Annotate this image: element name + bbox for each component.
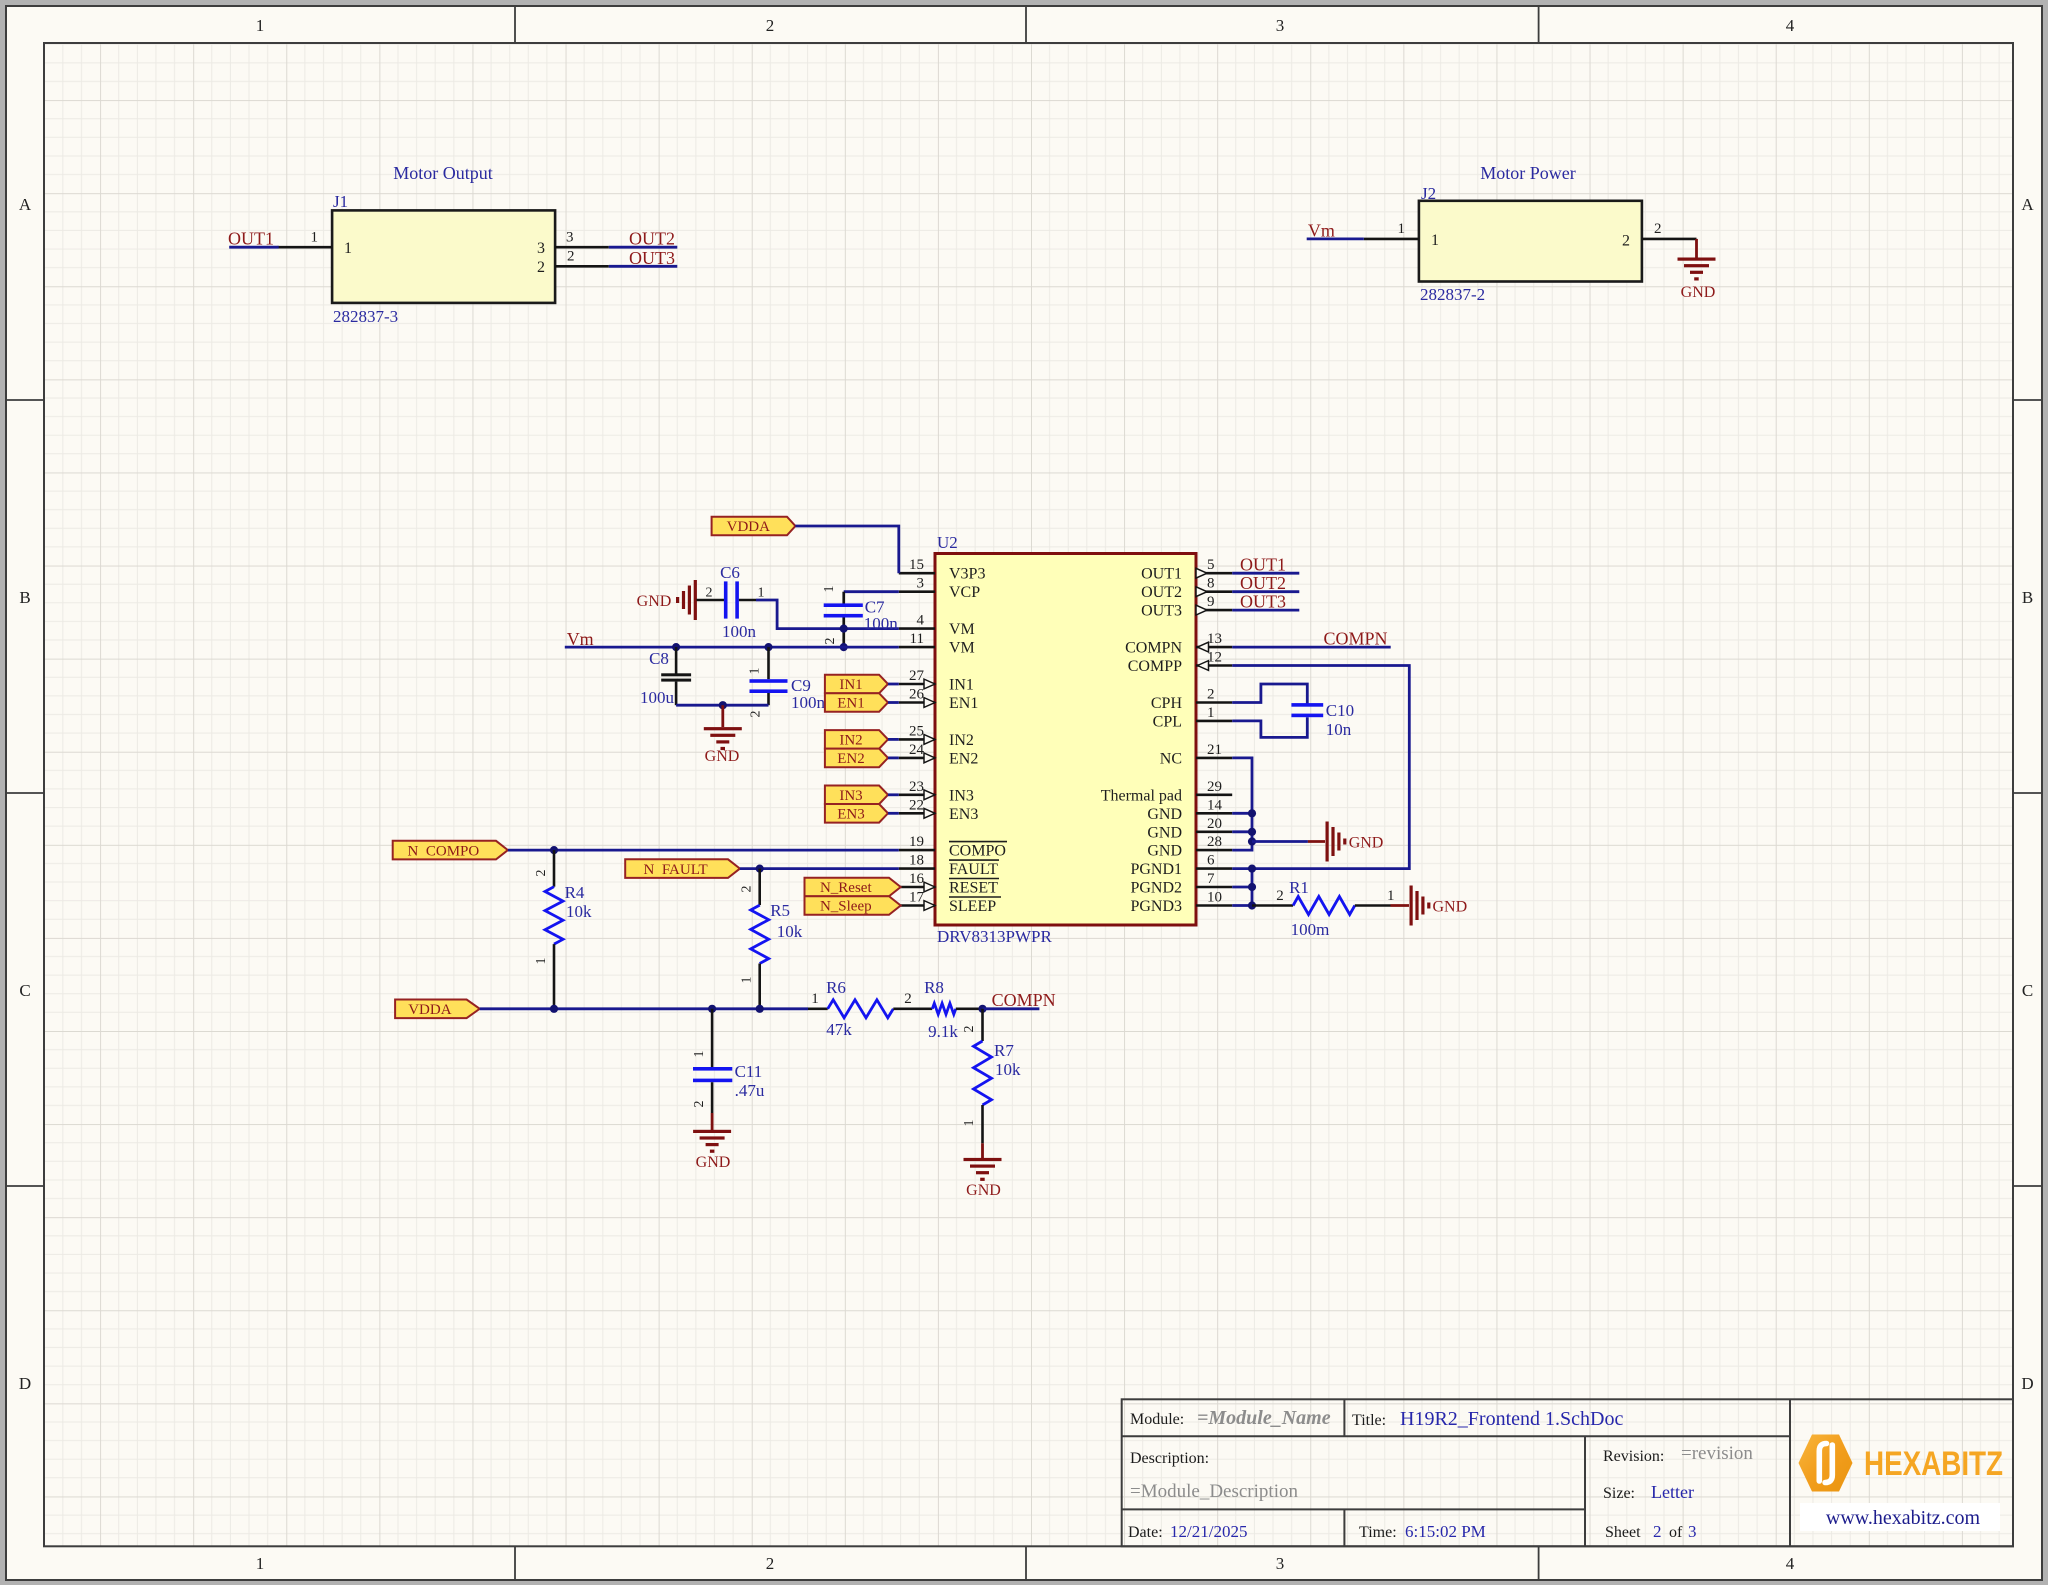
U2 pin 5 (OUT1) — [1141, 557, 1232, 583]
svg-text:GND: GND — [696, 1154, 731, 1171]
svg-text:18: 18 — [909, 853, 924, 869]
svg-text:D: D — [2021, 1374, 2033, 1393]
svg-text:VCP: VCP — [949, 584, 980, 601]
svg-text:6:15:02 PM: 6:15:02 PM — [1405, 1522, 1486, 1541]
svg-text:=Module_Description: =Module_Description — [1130, 1481, 1298, 1502]
U2 pin 27 (IN1) — [899, 668, 974, 694]
resistor R5 10k — [740, 869, 803, 1009]
svg-text:GND: GND — [1147, 824, 1182, 841]
svg-text:GND: GND — [1147, 806, 1182, 823]
junction PGND3 — [1248, 901, 1256, 909]
wire OUT3 (J1) — [609, 265, 678, 268]
wire pin7 to bus — [1232, 886, 1252, 889]
svg-text:2: 2 — [1276, 888, 1284, 904]
svg-text:10k: 10k — [995, 1060, 1021, 1079]
U2 pin 17 (SLEEP) — [899, 890, 1001, 916]
wire EN2 to pin — [888, 757, 899, 760]
junction gnd bus — [719, 701, 727, 709]
svg-text:8: 8 — [1207, 576, 1215, 592]
svg-text:29: 29 — [1207, 779, 1222, 795]
svg-text:2: 2 — [706, 586, 713, 601]
J1 pin 1 — [278, 230, 353, 258]
svg-text:16: 16 — [909, 871, 925, 887]
svg-text:C: C — [19, 981, 30, 1000]
svg-text:24: 24 — [909, 742, 925, 758]
svg-text:C8: C8 — [649, 649, 669, 668]
svg-text:R4: R4 — [565, 883, 585, 902]
U2 pin 18 (FAULT) — [899, 853, 999, 879]
IC U2 DRV8313PWPR — [935, 533, 1196, 946]
U2 pin 24 (EN2) — [899, 742, 979, 768]
junction Vm/C9 — [764, 643, 772, 651]
svg-text:FAULT: FAULT — [949, 861, 998, 878]
junction PGND1 — [1248, 865, 1256, 873]
svg-text:2: 2 — [567, 249, 575, 265]
svg-text:B: B — [2022, 588, 2033, 607]
svg-text:3: 3 — [537, 240, 545, 257]
svg-text:282837-3: 282837-3 — [333, 307, 398, 326]
svg-text:GND: GND — [1433, 899, 1468, 916]
net label flag EN1 — [825, 693, 888, 712]
svg-text:EN1: EN1 — [837, 696, 865, 712]
capacitor C8 100u — [640, 647, 691, 707]
U2 pin 12 (COMPP) — [1128, 650, 1232, 676]
svg-text:A: A — [19, 195, 32, 214]
svg-text:IN1: IN1 — [839, 677, 862, 693]
ground GND at C6 — [637, 580, 697, 620]
svg-text:IN3: IN3 — [839, 788, 862, 804]
svg-text:EN3: EN3 — [837, 807, 865, 823]
svg-text:1: 1 — [1387, 888, 1395, 904]
svg-text:4: 4 — [917, 613, 925, 629]
svg-text:OUT2: OUT2 — [1141, 584, 1182, 601]
wire EN1 to pin — [888, 701, 899, 704]
junction N_FAULT/R5 — [756, 865, 764, 873]
svg-text:4: 4 — [1786, 16, 1795, 35]
svg-text:3: 3 — [917, 576, 925, 592]
svg-text:N_Sleep: N_Sleep — [820, 899, 872, 915]
J2 pin 2 — [1622, 221, 1697, 250]
svg-text:C11: C11 — [735, 1062, 763, 1081]
svg-text:C6: C6 — [720, 563, 740, 582]
wire VDDA rail — [480, 1007, 808, 1010]
svg-text:COMPN: COMPN — [992, 990, 1056, 1010]
U2 pin 20 (GND) — [1147, 816, 1232, 842]
svg-text:A: A — [2021, 195, 2034, 214]
svg-text:V3P3: V3P3 — [949, 566, 985, 583]
J2 pin 1 — [1364, 221, 1439, 249]
svg-text:9: 9 — [1207, 594, 1215, 610]
wire CPL to C10 — [1232, 717, 1307, 737]
svg-text:1: 1 — [1398, 221, 1406, 237]
net label flag N_FAULT — [625, 859, 740, 878]
net label Vm (J2) — [1308, 221, 1335, 241]
svg-text:Motor Output: Motor Output — [393, 163, 493, 183]
ground GND right of U2 — [1308, 822, 1383, 862]
svg-text:1: 1 — [311, 230, 319, 246]
svg-text:1: 1 — [748, 668, 763, 675]
svg-text:6: 6 — [1207, 853, 1215, 869]
wire NC/GND bus — [1232, 758, 1252, 850]
capacitor C9 100n — [748, 647, 826, 717]
svg-text:1: 1 — [962, 1120, 977, 1127]
svg-text:100n: 100n — [864, 614, 899, 633]
J1 pin 3 — [537, 230, 609, 258]
U2 pin 13 (COMPN) — [1125, 631, 1232, 657]
svg-text:J1: J1 — [333, 192, 348, 211]
svg-text:22: 22 — [909, 797, 924, 813]
svg-text:=revision: =revision — [1681, 1443, 1753, 1464]
svg-text:EN2: EN2 — [837, 751, 865, 767]
resistor R7 10k — [962, 1009, 1021, 1144]
ground GND below R7 — [964, 1143, 1002, 1199]
svg-text:IN1: IN1 — [949, 677, 974, 694]
svg-text:2: 2 — [766, 16, 775, 35]
wire OUT3 (U2 right) — [1232, 609, 1299, 612]
svg-text:10n: 10n — [1326, 720, 1352, 739]
svg-text:Letter: Letter — [1651, 1482, 1694, 1502]
svg-text:VDDA: VDDA — [408, 1002, 451, 1018]
wire N_FAULT to U2 pin 18 — [740, 867, 899, 870]
svg-text:2: 2 — [534, 870, 549, 877]
svg-text:RESET: RESET — [949, 880, 998, 897]
svg-text:2: 2 — [749, 711, 764, 718]
wire C6 to U2 pin 4 (VM) — [756, 600, 899, 629]
svg-text:20: 20 — [1207, 816, 1222, 832]
svg-text:VDDA: VDDA — [727, 519, 770, 535]
wire pin20 to bus — [1232, 830, 1252, 833]
resistor R6 47k — [808, 978, 932, 1039]
net label flag N_Reset — [805, 878, 901, 897]
net label OUT2 (J1) — [629, 229, 675, 249]
svg-text:2: 2 — [1653, 1522, 1662, 1541]
wire CPH to C10 — [1232, 684, 1307, 705]
net label flag IN3 — [825, 786, 888, 805]
junction VDDA/R5 — [756, 1005, 764, 1013]
svg-text:1: 1 — [256, 16, 265, 35]
svg-text:OUT1: OUT1 — [228, 229, 274, 249]
resistor R4 10k — [534, 850, 592, 1009]
svg-text:C: C — [2022, 981, 2033, 1000]
wire pin14 to bus — [1232, 812, 1252, 815]
svg-text:7: 7 — [1207, 871, 1215, 887]
net label OUT1 (U2 right) — [1240, 555, 1286, 575]
svg-text:R6: R6 — [826, 978, 846, 997]
svg-text:N COMPO: N COMPO — [408, 843, 480, 859]
U2 pin 26 (EN1) — [899, 687, 979, 713]
svg-text:R5: R5 — [770, 901, 790, 920]
junction GND bus 14 — [1248, 809, 1256, 817]
svg-text:1: 1 — [534, 958, 549, 965]
svg-text:R7: R7 — [994, 1041, 1014, 1060]
wire VDDA to U2 pin 15 — [795, 526, 898, 573]
svg-text:100n: 100n — [791, 693, 826, 712]
ground GND below C8/C9 — [704, 705, 742, 765]
capacitor C6 100n — [697, 563, 765, 641]
wire OUT2 (U2 right) — [1232, 590, 1299, 593]
svg-text:1: 1 — [256, 1554, 265, 1573]
svg-text:=Module_Name: =Module_Name — [1197, 1407, 1331, 1429]
svg-text:OUT3: OUT3 — [1240, 591, 1286, 611]
connector J1 282837-3 (Motor Output) — [332, 163, 555, 326]
resistor R1 100m — [1252, 878, 1394, 939]
svg-text:10: 10 — [1207, 890, 1222, 906]
junction VDDA/C11 — [708, 1005, 716, 1013]
svg-text:28: 28 — [1207, 834, 1222, 850]
U2 pin 10 (PGND3) — [1130, 890, 1232, 916]
svg-text:1: 1 — [758, 586, 765, 601]
svg-text:CPL: CPL — [1153, 713, 1182, 730]
svg-text:47k: 47k — [826, 1020, 852, 1039]
wire COMPP loop — [1232, 666, 1409, 869]
svg-text:B: B — [19, 588, 30, 607]
svg-text:C10: C10 — [1326, 701, 1354, 720]
U2 pin 1 (CPL) — [1153, 705, 1233, 731]
U2 pin 29 (Thermal pad) — [1101, 779, 1232, 805]
svg-text:COMPO: COMPO — [949, 843, 1006, 860]
svg-text:15: 15 — [909, 557, 924, 573]
svg-text:OUT2: OUT2 — [1240, 573, 1286, 593]
net label OUT2 (U2 right) — [1240, 573, 1286, 593]
svg-text:COMPN: COMPN — [1323, 628, 1387, 648]
U2 pin 15 (V3P3) — [899, 557, 986, 583]
svg-text:IN3: IN3 — [949, 787, 974, 804]
wire Vm bus to U2 pin 11 — [565, 646, 899, 649]
U2 pin 8 (OUT2) — [1141, 576, 1232, 602]
svg-text:100u: 100u — [640, 688, 675, 707]
svg-text:GND: GND — [637, 593, 672, 610]
svg-text:100n: 100n — [722, 622, 757, 641]
U2 pin 28 (GND) — [1147, 834, 1232, 860]
svg-text:2: 2 — [1207, 687, 1215, 703]
svg-text:3: 3 — [1276, 1554, 1285, 1573]
svg-text:2: 2 — [1622, 233, 1630, 250]
wire COMPN (right) — [1232, 646, 1391, 649]
svg-text:VM: VM — [949, 621, 975, 638]
svg-text:4: 4 — [1786, 1554, 1795, 1573]
wire N_COMPO to U2 pin 19 — [508, 849, 899, 852]
U2 pin 9 (OUT3) — [1141, 594, 1232, 620]
title block — [1122, 1399, 2013, 1546]
svg-text:3: 3 — [1276, 16, 1285, 35]
wire IN2 to pin — [888, 738, 899, 741]
U2 pin 11 (VM) — [899, 631, 975, 657]
junction PGND2 — [1248, 883, 1256, 891]
svg-text:2: 2 — [740, 886, 755, 893]
wire PGND bus — [1232, 869, 1252, 906]
wire Vm to J2 — [1307, 237, 1364, 240]
svg-text:GND: GND — [705, 748, 740, 765]
svg-text:COMPN: COMPN — [1125, 640, 1182, 657]
junction GND bus tap — [1248, 837, 1256, 845]
svg-text:2: 2 — [904, 991, 912, 1007]
svg-text:SLEEP: SLEEP — [949, 898, 996, 915]
svg-text:PGND2: PGND2 — [1130, 880, 1182, 897]
svg-text:VM: VM — [949, 640, 975, 657]
svg-text:R8: R8 — [924, 978, 944, 997]
ground GND at J2 — [1678, 239, 1716, 301]
svg-text:27: 27 — [909, 668, 925, 684]
net label flag IN1 — [825, 675, 888, 694]
svg-text:Module:: Module: — [1130, 1411, 1184, 1428]
svg-text:2: 2 — [823, 638, 838, 645]
capacitor C10 10n — [1291, 701, 1354, 739]
svg-text:N FAULT: N FAULT — [644, 862, 708, 878]
wire U2 pin 3 (VCP) to C7 — [844, 590, 899, 593]
svg-text:IN2: IN2 — [949, 732, 974, 749]
junction COMPN/R7 — [978, 1005, 986, 1013]
svg-text:Date:: Date: — [1128, 1524, 1163, 1541]
svg-text:23: 23 — [909, 779, 924, 795]
svg-text:1: 1 — [1431, 232, 1439, 249]
svg-text:Size:: Size: — [1603, 1485, 1635, 1502]
net label flag EN2 — [825, 749, 888, 768]
svg-text:Revision:: Revision: — [1603, 1448, 1664, 1465]
HEXABITZ logo — [1799, 1435, 2004, 1532]
net label COMPN (left) — [992, 990, 1056, 1010]
svg-text:OUT3: OUT3 — [1141, 603, 1182, 620]
svg-text:GND: GND — [966, 1182, 1001, 1199]
svg-text:5: 5 — [1207, 557, 1215, 573]
svg-text:Thermal pad: Thermal pad — [1101, 787, 1182, 804]
svg-text:PGND1: PGND1 — [1130, 861, 1182, 878]
U2 pin 2 (CPH) — [1151, 687, 1232, 713]
svg-text:1: 1 — [740, 977, 755, 984]
wire IN3 to pin — [888, 793, 899, 796]
wire OUT2 (J1) — [609, 246, 678, 249]
svg-text:EN3: EN3 — [949, 806, 978, 823]
wire to GND symbol — [1252, 840, 1308, 843]
U2 pin 21 (NC) — [1160, 742, 1232, 768]
ground GND below C11 — [693, 1113, 731, 1171]
J1 pin 2 — [537, 249, 609, 277]
capacitor C7 100n — [822, 586, 898, 648]
U2 pin 4 (VM) — [899, 613, 975, 639]
wire IN1 to pin — [888, 683, 899, 686]
svg-text:2: 2 — [692, 1101, 707, 1108]
power port VDDA (top) — [712, 517, 796, 536]
svg-text:Motor Power: Motor Power — [1480, 163, 1576, 183]
connector J2 282837-2 (Motor Power) — [1419, 163, 1642, 304]
svg-text:H19R2_Frontend 1.SchDoc: H19R2_Frontend 1.SchDoc — [1400, 1408, 1623, 1430]
svg-text:12/21/2025: 12/21/2025 — [1170, 1522, 1247, 1541]
svg-text:3: 3 — [566, 230, 574, 246]
junction GND bus 20 — [1248, 828, 1256, 836]
svg-text:EN2: EN2 — [949, 750, 978, 767]
svg-text:OUT1: OUT1 — [1141, 566, 1182, 583]
svg-text:IN2: IN2 — [839, 733, 862, 749]
svg-text:OUT1: OUT1 — [1240, 555, 1286, 575]
svg-text:Title:: Title: — [1352, 1412, 1386, 1429]
svg-text:1: 1 — [811, 991, 819, 1007]
svg-text:2: 2 — [766, 1554, 775, 1573]
net label flag EN3 — [825, 804, 888, 823]
svg-text:17: 17 — [909, 890, 925, 906]
svg-text:21: 21 — [1207, 742, 1222, 758]
svg-text:26: 26 — [909, 687, 925, 703]
svg-text:GND: GND — [1349, 835, 1384, 852]
svg-text:EN1: EN1 — [949, 695, 978, 712]
junction C7/VM — [840, 625, 848, 652]
resistor R8 9.1k — [924, 978, 982, 1041]
net label flag N_COMPO — [393, 841, 508, 860]
svg-text:10k: 10k — [777, 922, 803, 941]
svg-text:14: 14 — [1207, 797, 1223, 813]
svg-text:25: 25 — [909, 723, 924, 739]
net label OUT3 (J1) — [629, 248, 675, 268]
svg-text:1: 1 — [344, 240, 352, 257]
svg-text:GND: GND — [1681, 284, 1716, 301]
power port VDDA (bottom) — [395, 1000, 480, 1019]
svg-text:2: 2 — [1654, 221, 1662, 237]
svg-text:PGND3: PGND3 — [1130, 898, 1182, 915]
svg-text:Description:: Description: — [1130, 1450, 1209, 1467]
svg-text:.47u: .47u — [735, 1081, 765, 1100]
junction Vm/C8 — [672, 643, 680, 651]
svg-text:2: 2 — [537, 259, 545, 276]
net label flag IN2 — [825, 730, 888, 749]
svg-text:19: 19 — [909, 834, 924, 850]
svg-text:9.1k: 9.1k — [928, 1022, 958, 1041]
svg-text:2: 2 — [962, 1026, 977, 1033]
U2 pin 3 (VCP) — [899, 576, 980, 602]
net label OUT3 (U2 right) — [1240, 591, 1286, 611]
svg-text:D: D — [19, 1374, 31, 1393]
U2 pin 25 (IN2) — [899, 723, 974, 749]
U2 pin 19 (COMPO) — [899, 834, 1007, 860]
svg-text:www.hexabitz.com: www.hexabitz.com — [1826, 1507, 1981, 1529]
svg-text:OUT2: OUT2 — [629, 229, 675, 249]
net label flag N_Sleep — [805, 896, 901, 915]
svg-text:Time:: Time: — [1359, 1524, 1397, 1541]
svg-text:of: of — [1669, 1524, 1683, 1541]
svg-text:CPH: CPH — [1151, 695, 1183, 712]
svg-text:R1: R1 — [1289, 878, 1309, 897]
svg-text:COMPP: COMPP — [1128, 658, 1182, 675]
svg-text:3: 3 — [1688, 1522, 1697, 1541]
svg-text:10k: 10k — [566, 902, 592, 921]
U2 pin 22 (EN3) — [899, 797, 979, 823]
svg-text:1: 1 — [1207, 705, 1215, 721]
ground GND at R1 — [1391, 886, 1468, 926]
wire COMPN stub — [983, 1007, 1040, 1010]
junction VDDA/R4 — [550, 1005, 558, 1013]
svg-text:HEXABITZ: HEXABITZ — [1864, 1445, 2003, 1483]
svg-text:N_Reset: N_Reset — [820, 880, 872, 896]
wire OUT1 (J1) — [229, 246, 279, 249]
net label COMPN (right) — [1323, 628, 1387, 648]
title block texts — [1128, 1407, 1753, 1541]
svg-text:OUT3: OUT3 — [629, 248, 675, 268]
U2 pin 23 (IN3) — [899, 779, 974, 805]
net label OUT1 (J1) — [228, 229, 274, 249]
svg-text:1: 1 — [822, 586, 837, 593]
svg-text:100m: 100m — [1291, 920, 1330, 939]
wire EN3 to pin — [888, 812, 899, 815]
U2 pin 6 (PGND1) — [1130, 853, 1232, 879]
wire C8/C9 ground bus — [676, 704, 768, 707]
svg-text:NC: NC — [1160, 750, 1182, 767]
svg-text:DRV8313PWPR: DRV8313PWPR — [937, 927, 1052, 946]
net label Vm (left) — [567, 629, 594, 649]
svg-text:1: 1 — [692, 1051, 707, 1058]
svg-text:282837-2: 282837-2 — [1420, 285, 1485, 304]
svg-text:GND: GND — [1147, 843, 1182, 860]
U2 pin 14 (GND) — [1147, 797, 1232, 823]
svg-text:U2: U2 — [937, 533, 958, 552]
junction N_COMPO/R4 — [550, 846, 558, 854]
U2 pin 16 (RESET) — [899, 871, 999, 897]
